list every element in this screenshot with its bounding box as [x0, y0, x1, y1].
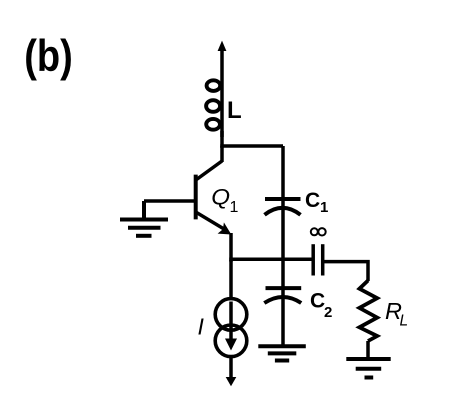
svg-text:1: 1	[320, 199, 328, 216]
figure label (b)	[24, 31, 73, 80]
svg-text:C: C	[310, 290, 325, 313]
svg-text:L: L	[227, 97, 242, 124]
wire inductor to collector junction	[220, 131, 224, 148]
wire collector horizontal to C1 branch	[220, 144, 283, 148]
svg-text:C: C	[305, 189, 320, 212]
inductor L	[206, 80, 220, 129]
capacitor C2	[264, 288, 301, 303]
label I	[198, 313, 205, 339]
svg-text:1: 1	[230, 199, 239, 216]
label Q1	[211, 184, 238, 216]
current source I	[215, 260, 247, 386]
svg-text:Q: Q	[211, 184, 230, 209]
svg-text:2: 2	[324, 304, 332, 321]
svg-text:(b): (b)	[24, 31, 73, 80]
ground (base)	[120, 201, 168, 236]
node line (emitter node horizontal)	[229, 258, 313, 262]
supply arrow	[218, 41, 227, 137]
label RL	[385, 298, 408, 330]
label L	[227, 97, 242, 124]
svg-text:I: I	[198, 313, 205, 339]
label C1	[305, 189, 328, 216]
wire C1 branch vertical (through C1, node, C2 to ground)	[281, 146, 285, 346]
resistor RL	[359, 281, 377, 359]
wire coupling cap to RL corner	[323, 262, 368, 281]
ground (RL)	[346, 359, 390, 378]
ground (C2)	[258, 346, 306, 360]
capacitor C1	[265, 199, 301, 215]
label infinity	[311, 228, 326, 235]
transistor Q1	[196, 146, 232, 262]
wire base	[144, 199, 196, 203]
capacitor Cinf (coupling, infinity)	[313, 244, 323, 275]
svg-text:L: L	[400, 313, 409, 330]
label C2	[310, 290, 332, 321]
